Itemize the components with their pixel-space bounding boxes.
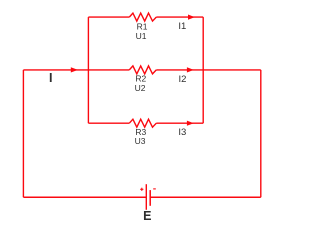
svg-text:I: I [49,71,52,85]
battery E positive long plate [145,184,147,210]
wire: parallel network inner right vertical [202,17,204,123]
wire: bottom from battery negative plate to right corner [150,196,261,198]
current arrow I1 [188,15,195,20]
resistor R1 [129,13,156,21]
wire: R3 branch right lead [156,122,203,124]
svg-text:I2: I2 [179,74,187,85]
current arrow I3 [187,121,194,126]
current arrow I2 [187,67,194,72]
current arrow I into node [71,67,78,72]
wire: right outer vertical [260,70,262,197]
svg-text:I1: I1 [178,21,186,32]
wire: R2 branch output to right outer vertical [203,69,261,71]
wire: left outer vertical [22,70,24,197]
svg-text:U1: U1 [136,31,147,41]
wire: main top from left corner to parallel node A with branch to R2 [23,69,88,71]
battery E negative short plate [149,190,151,206]
svg-text:U3: U3 [135,136,146,146]
wire: parallel network left vertical [87,17,89,123]
battery minus sign [153,188,156,190]
wire: R2 branch left lead [88,69,129,71]
svg-text:E: E [143,209,151,223]
wire: R2 branch right lead [156,69,203,71]
wire: R1 branch right lead [156,16,203,18]
wire: bottom from left corner to battery positive plate [23,196,146,198]
wire: R1 branch left lead [88,16,129,18]
wire: R3 branch left lead [88,122,129,124]
battery plus sign [140,188,143,191]
svg-text:I3: I3 [178,127,186,138]
resistor R3 [129,119,156,127]
svg-text:U2: U2 [135,83,146,93]
resistor R2 [129,66,156,74]
